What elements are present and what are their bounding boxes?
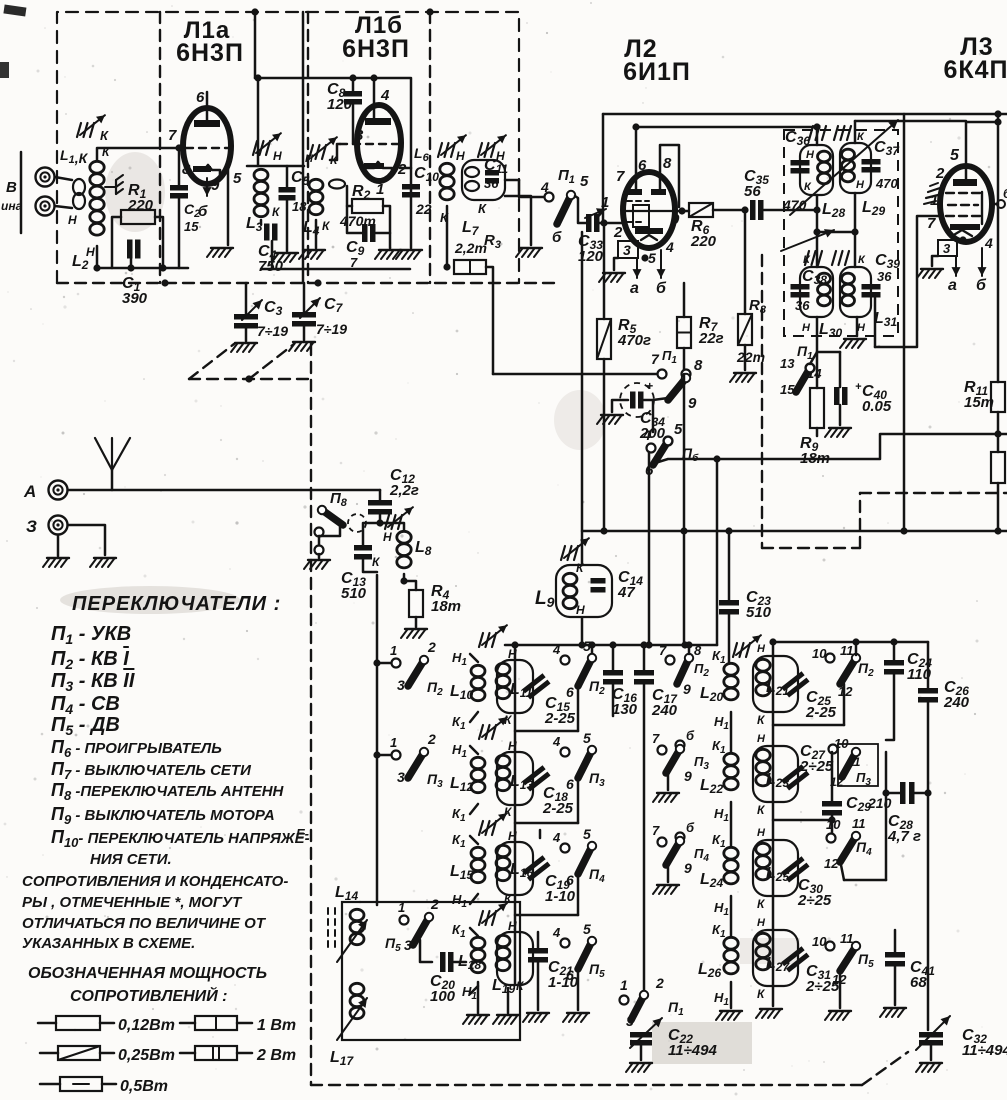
label C3 [264, 299, 283, 318]
svg-text:ОБОЗНАЧЕННАЯ МОЩНОСТЬ: ОБОЗНАЧЕННАЯ МОЩНОСТЬ [28, 965, 267, 982]
label P2R7 7 [659, 643, 667, 658]
label P1m 9 [688, 395, 697, 412]
wire pin3 gnd L3 [932, 256, 938, 266]
cathode L2 [641, 235, 657, 240]
wire P8 stub [318, 536, 321, 546]
label a label L3 [948, 277, 957, 294]
wire UKV divider 2 (dashed) [307, 12, 309, 283]
label C11 val [484, 176, 499, 191]
label L28 [822, 201, 845, 220]
svg-text:3: 3 [397, 769, 405, 785]
wire grid wire L1b [330, 144, 340, 160]
wire antenna line [68, 489, 380, 492]
wire R7 col [683, 283, 686, 317]
label P5 mid 6 [566, 967, 574, 983]
label L10 [450, 683, 473, 702]
terminal earth Z [49, 516, 68, 535]
tank loop row4 [497, 932, 533, 985]
svg-text:5: 5 [950, 147, 960, 164]
label R8 value [736, 349, 765, 365]
label r3 K1 [452, 832, 466, 850]
wire L30 to P1r [810, 352, 817, 364]
svg-text:130: 130 [612, 701, 638, 718]
trimmer capacitor C18 [522, 765, 550, 791]
label P2R 12 [838, 684, 853, 699]
L9 tank loop [556, 565, 612, 617]
node C35 node [741, 206, 748, 213]
label label P2R [858, 660, 874, 679]
ground under pin3 L2 [599, 273, 625, 282]
tank loop L25 [753, 840, 798, 896]
label item P5 [51, 714, 120, 738]
label r4 K [516, 979, 525, 993]
svg-text:11÷494: 11÷494 [668, 1042, 717, 1059]
lead arrow b arrow L2 [657, 250, 666, 278]
ground under R2C9 [375, 250, 401, 259]
wire P4R7 gnd lead [667, 867, 670, 882]
label L26 [698, 961, 721, 980]
T2 primary tank loop [800, 267, 833, 317]
svg-text:22т: 22т [736, 349, 765, 365]
svg-text:ПЕРЕКЛЮЧАТЕЛИ :: ПЕРЕКЛЮЧАТЕЛИ : [72, 593, 281, 615]
label label P3R7 [694, 754, 709, 772]
label C13 K [372, 555, 381, 569]
svg-text:5: 5 [583, 638, 591, 654]
node pin5 dot [641, 254, 648, 261]
svg-text:47: 47 [617, 584, 635, 601]
core-adjust symbol row3 core [479, 813, 507, 835]
node bus531 x998 [994, 527, 1001, 534]
svg-text:9: 9 [671, 211, 680, 228]
svg-text:10: 10 [826, 817, 841, 832]
wire right boundary step (dashed) [859, 493, 861, 548]
wire L8-R4 [404, 574, 416, 590]
label C38 [802, 268, 827, 287]
wire band unit bottom (dashed) [311, 1084, 862, 1086]
label R7 [698, 315, 724, 347]
wire R9 down [816, 428, 819, 436]
svg-text:2: 2 [427, 639, 436, 655]
wire P2mid stub [591, 645, 594, 657]
wire IF box top [603, 113, 1007, 116]
label note line1 [22, 873, 288, 890]
label T2 K1 [803, 254, 811, 266]
label L29 [862, 199, 885, 218]
label tube label L2 [624, 35, 657, 63]
terminal input B [36, 197, 55, 216]
bottom bar L2 [635, 228, 663, 234]
wire R11 mid [997, 412, 1000, 452]
label power heading1 [28, 965, 267, 982]
label pin1 L1b [376, 181, 384, 198]
pin2 hatch-gnd [924, 183, 942, 204]
svg-text:18: 18 [292, 199, 307, 214]
core-adjust symbol row4 core [479, 903, 507, 925]
svg-text:б: б [976, 277, 987, 294]
wire pin3 gnd lead [614, 258, 618, 270]
svg-text:Е-: Е- [296, 826, 309, 841]
svg-text:П3 - КВ II: П3 - КВ II [51, 670, 135, 694]
wire UKV divider 3 (dashed) [429, 12, 431, 283]
svg-text:6: 6 [566, 872, 574, 888]
svg-text:1-10: 1-10 [545, 888, 576, 905]
inductor L18 [471, 937, 485, 972]
label pin2 L3 [935, 165, 945, 182]
label a label L2 [630, 280, 639, 297]
lead arrow a arrow L3 [952, 256, 961, 276]
wire R1C1 left rail [112, 217, 121, 268]
capacitor C11 36 [485, 170, 499, 184]
label pin7 L1a [168, 127, 177, 144]
svg-text:2-25: 2-25 [805, 704, 837, 721]
svg-text:1: 1 [376, 181, 384, 198]
switch contact P3L-1 [392, 751, 401, 760]
wire C33 long down [581, 232, 584, 565]
ground under C40 [825, 428, 851, 437]
svg-text:22: 22 [415, 201, 432, 217]
wire C2 bottom [178, 198, 181, 268]
label C10 [414, 165, 439, 184]
L-C11 tank loop [462, 160, 505, 200]
switch contact P1-4 top [545, 193, 554, 202]
node pin9 node [678, 207, 685, 214]
switch lever P3R [842, 748, 860, 777]
svg-text:СОПРОТИВЛЕНИЯ И КОНДЕНСАТО-: СОПРОТИВЛЕНИЯ И КОНДЕНСАТО- [22, 873, 288, 890]
label label R8 [749, 297, 767, 316]
capacitor C8 120 [344, 91, 362, 105]
wire right boundary h (dashed) [762, 547, 860, 549]
label tankA H [757, 643, 766, 655]
label item P8 [51, 780, 285, 803]
switch lever P1b [631, 991, 648, 1020]
lead arrow a arrow L2 [633, 258, 642, 278]
svg-text:5: 5 [580, 173, 589, 190]
scan mark top-left [0, 5, 26, 78]
svg-text:4: 4 [552, 925, 561, 940]
svg-text:4: 4 [984, 235, 993, 251]
label C1 [122, 275, 148, 307]
switch contact P8 c1 [315, 528, 324, 537]
wire Z to gnd [57, 535, 60, 556]
label C41 [910, 959, 935, 991]
switch contact P4R7-8 [676, 833, 685, 842]
svg-text:7: 7 [652, 731, 660, 746]
wire C40 top [839, 352, 842, 387]
label tankC K [757, 897, 766, 911]
UKV unit enclosure (dashed box) [57, 12, 519, 283]
label tube label L1b [355, 12, 403, 39]
wire R4 gnd lead [415, 617, 418, 627]
label pin7 L3 [927, 215, 936, 232]
switch contact P2 mid-4 [561, 656, 570, 665]
node R3 left [443, 263, 450, 270]
label pin3 L1b [355, 127, 364, 144]
switch lever P2 mid [578, 654, 596, 686]
svg-text:7: 7 [616, 168, 625, 185]
ground under pin3 L3 [917, 269, 943, 278]
capacitor C16 130 [603, 670, 623, 685]
node link dot a [813, 228, 820, 235]
wire legend lead 2b [237, 1022, 252, 1025]
label C5 val [292, 199, 307, 214]
label C11 [484, 157, 508, 176]
wire legend lead 1b [100, 1022, 114, 1025]
label P3L 3 [397, 769, 405, 785]
label item P1 [51, 623, 131, 647]
IF transformer enclosure (dashed) [784, 130, 898, 336]
label tankD H [757, 917, 766, 929]
svg-text:18т: 18т [431, 598, 461, 615]
ground under L19 col [493, 1015, 519, 1024]
svg-text:36: 36 [484, 176, 499, 191]
svg-text:Н: Н [508, 829, 517, 843]
core-adjust symbol T1 core b [834, 126, 851, 140]
ground under P4R7 [653, 885, 679, 894]
capacitor C29 210 [822, 801, 842, 816]
svg-text:4: 4 [642, 427, 651, 443]
capacitor C22 [630, 1032, 652, 1046]
switch contact P3R-10 [829, 745, 838, 754]
tank loop L23 [753, 746, 798, 802]
wire R7 bus link [683, 374, 686, 531]
label E label [296, 826, 309, 841]
node b642 894 [890, 638, 897, 645]
svg-text:6: 6 [566, 684, 574, 700]
svg-text:1: 1 [620, 977, 628, 993]
core-adjust symbol L9 core [561, 538, 589, 560]
svg-text:1: 1 [390, 735, 397, 750]
switch lever P3R7 [666, 745, 684, 773]
label P2L 3 [397, 677, 405, 693]
wire P6 vertical [648, 452, 651, 645]
svg-text:240: 240 [651, 702, 678, 719]
inductor L4 [309, 179, 323, 214]
label label P1 mid [662, 348, 677, 366]
label C3 value [257, 323, 288, 339]
label L20 N1 [714, 714, 729, 732]
wire band unit diag (dashed) [862, 1052, 908, 1085]
wire T1-T2 cross [817, 231, 855, 234]
label P2 mid 6 [566, 684, 574, 700]
wire legend lead 1a [38, 1022, 56, 1025]
label C35 [744, 168, 769, 200]
terminal b out [997, 200, 1005, 208]
wire C40 col2 [839, 405, 842, 425]
label L23 [766, 771, 789, 790]
label L16 [510, 861, 533, 880]
node C33 node [600, 219, 607, 226]
wire C32 down [930, 1045, 933, 1060]
label r3 K [504, 892, 513, 906]
label P2L 1 [390, 643, 397, 658]
node pin4 top dot [349, 74, 356, 81]
wire C13 branch [363, 523, 380, 545]
wire R7 down [683, 348, 686, 374]
label P5L 2 [430, 896, 439, 912]
label r4 N1 [462, 984, 477, 1002]
ground under C10 [396, 250, 422, 259]
svg-text:а: а [948, 277, 957, 294]
switch contact P5L-1 [400, 916, 409, 925]
L14 tune arrow [337, 920, 367, 962]
svg-text:36: 36 [877, 269, 892, 284]
wire R11 col [997, 114, 1000, 382]
label L26 K1 [712, 922, 726, 940]
label P5 mid 4 [552, 925, 561, 940]
node P2mid busdot [588, 641, 595, 648]
wire P2L branch [377, 662, 392, 665]
svg-text:Н: Н [68, 213, 77, 227]
svg-text:9: 9 [683, 681, 691, 697]
label L19 [492, 977, 515, 996]
node top border dot [426, 8, 433, 15]
label C28 [887, 813, 921, 845]
label P3R7 7 [652, 731, 660, 746]
capacitor C24 110 [884, 660, 904, 675]
label C15 [544, 695, 576, 727]
anode L1a [194, 120, 220, 127]
label P2 mid 5 [583, 638, 591, 654]
label C16 [612, 686, 638, 718]
inductor L8 [397, 531, 411, 568]
label r4 H [508, 919, 517, 933]
pin1 arrow [585, 208, 606, 218]
trimmer capacitor C19 [522, 855, 550, 881]
wire row4 left stub bot [470, 986, 478, 994]
wire grid lead L3 [875, 216, 942, 347]
svg-text:Н: Н [383, 530, 392, 544]
label P4 mid 6 [566, 872, 574, 888]
wire L3-C4 [260, 220, 263, 224]
svg-text:4: 4 [552, 734, 561, 749]
svg-text:ина: ина [1, 199, 23, 213]
terminal input A [36, 168, 55, 187]
label note line2 [22, 894, 243, 911]
svg-text:7: 7 [651, 351, 660, 367]
inductor L13 [496, 755, 510, 790]
wire C11 out [505, 179, 519, 182]
label P3R 10 [834, 736, 849, 751]
label C18 [542, 785, 574, 817]
svg-text:2: 2 [935, 165, 945, 182]
inductor L24 [724, 847, 738, 884]
wire C5 column [286, 166, 289, 187]
svg-text:1: 1 [930, 192, 938, 209]
wire C12 out [379, 513, 382, 523]
wire top feed [254, 12, 257, 78]
wire L28 top lead [816, 127, 819, 145]
label L26 N1 [714, 990, 729, 1008]
node on bottom edge 2 [314, 279, 321, 286]
wire jack2-L1 [55, 206, 72, 208]
node b645 613 [609, 641, 616, 648]
label C10 val [415, 201, 432, 217]
label T1 N2 [856, 179, 865, 191]
label pin2 L2 [613, 224, 623, 241]
wire L4 gnd lead [315, 220, 318, 248]
svg-text:15: 15 [184, 219, 199, 234]
pin3 box L3 [938, 240, 957, 256]
label label P5L [385, 935, 401, 954]
label tankB H [757, 733, 766, 745]
label label A [23, 482, 36, 501]
inductor L3 [254, 169, 268, 216]
label r3 H [508, 829, 517, 843]
inductor L26 [724, 937, 738, 974]
wire C11 gnd [505, 196, 531, 245]
inductor L14 [350, 909, 364, 944]
svg-text:5: 5 [648, 250, 656, 266]
tuning arrow T2 [781, 229, 834, 251]
node pin5 junction [959, 236, 966, 243]
node bus531 x604 [600, 527, 607, 534]
label pin9 L1a [211, 177, 220, 194]
wire bus 531 [582, 530, 1007, 533]
ground under C41 [880, 1008, 906, 1017]
tube envelope L1b (6N3P triode b) [357, 105, 401, 181]
label P1top 4 [540, 179, 549, 195]
inductor L23 [756, 749, 770, 786]
lead arrow pin9 arrow L1a [203, 178, 212, 196]
label r1 N1 [452, 650, 467, 668]
wire tap row C [844, 879, 886, 882]
wire antenna drop [111, 470, 114, 490]
resistor legend 0.5W [60, 1077, 102, 1091]
svg-text:5: 5 [583, 921, 591, 937]
svg-text:9: 9 [688, 395, 697, 412]
wire bottom rail 2nd [261, 268, 410, 271]
svg-text:7: 7 [350, 255, 358, 270]
trimmer arrow C7 [300, 298, 320, 318]
label P5L 3 [404, 937, 412, 953]
label C13 [341, 570, 367, 602]
label C29 label [846, 795, 871, 814]
switch lever P2R [840, 654, 860, 684]
label pin7 L2 [616, 168, 625, 185]
svg-text:510: 510 [341, 585, 367, 602]
label pin5 L2 [648, 250, 656, 266]
label P2R7 9 [683, 681, 691, 697]
svg-text:6К4П: 6К4П [943, 56, 1007, 84]
label P6 5 [674, 421, 683, 438]
ground under L27 [756, 1009, 782, 1018]
svg-text:3: 3 [397, 677, 405, 693]
grid dashes L3 [946, 192, 982, 224]
wire rowB tap [515, 822, 578, 825]
svg-text:4,7 г: 4,7 г [887, 828, 921, 845]
label out b label [1003, 186, 1007, 201]
label C26 [943, 679, 970, 711]
switch lever P6 [653, 437, 672, 465]
svg-text:7: 7 [659, 643, 667, 658]
svg-text:7÷19: 7÷19 [316, 321, 347, 337]
mid line L2 [623, 210, 682, 212]
label L7 [462, 219, 480, 238]
node P2L tap [373, 659, 380, 666]
svg-text:П6 - ПРОИГРЫВАТЕЛЬ: П6 - ПРОИГРЫВАТЕЛЬ [51, 737, 222, 760]
label L24 K1 [712, 832, 726, 850]
svg-text:2-25: 2-25 [542, 800, 574, 817]
label L4 K top [330, 153, 339, 167]
inductor in C11 tank [465, 167, 479, 191]
label R5 [617, 317, 651, 349]
svg-text:УКАЗАННЫХ В СХЕМЕ.: УКАЗАННЫХ В СХЕМЕ. [22, 935, 195, 952]
svg-text:б: б [552, 229, 562, 246]
ground under C7 [289, 342, 315, 351]
label P6 6 [645, 462, 654, 479]
ground under C32 [916, 1063, 942, 1072]
wire C21 down [537, 961, 540, 1010]
